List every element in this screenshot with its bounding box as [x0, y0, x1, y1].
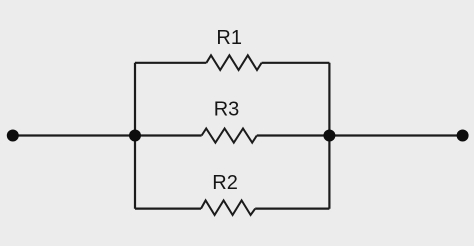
wire: left vertical bus — [134, 63, 136, 209]
node: left terminal dot — [7, 130, 19, 142]
wire: left terminal to left junction — [13, 134, 135, 136]
wire: right junction to right terminal — [329, 134, 462, 136]
node: right junction — [323, 130, 335, 142]
wire: right vertical bus — [328, 63, 330, 209]
wire: top branch right lead — [262, 62, 330, 64]
resistor R3 — [202, 129, 257, 143]
svg-text:R3: R3 — [214, 99, 240, 121]
svg-text:R1: R1 — [216, 27, 242, 49]
node: left junction — [129, 130, 141, 142]
svg-text:R2: R2 — [212, 172, 238, 194]
resistor R1 — [206, 55, 261, 70]
wire: middle branch left lead — [135, 134, 202, 136]
wire: middle branch right lead — [257, 134, 330, 136]
node: right terminal dot — [457, 130, 469, 142]
wire: bottom branch left lead — [135, 208, 201, 210]
wire: top branch left lead — [135, 62, 206, 64]
wire: bottom branch right lead — [255, 208, 329, 210]
resistor R2 — [201, 200, 255, 215]
